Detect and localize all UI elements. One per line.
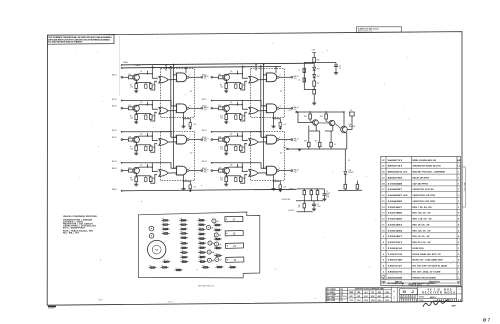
resistor R7 10K — [218, 138, 222, 141]
svg-text:R6: R6 — [180, 222, 182, 224]
board component R19 — [162, 261, 170, 263]
wire output — [279, 139, 291, 141]
resistor R1 10K — [128, 76, 132, 79]
ground — [224, 184, 228, 186]
svg-text:BR-01: BR-01 — [112, 75, 117, 77]
svg-text:K1: K1 — [155, 249, 159, 251]
page border — [47, 32, 462, 306]
OR gate Z3 section 1a — [249, 76, 258, 83]
junction — [273, 118, 274, 119]
ground — [334, 73, 338, 75]
svg-text:1.5K: 1.5K — [283, 124, 286, 126]
svg-text:APVD CHG B 47 E: APVD CHG B 47 E — [358, 30, 373, 33]
wire — [225, 88, 227, 91]
wire to gate input — [241, 112, 247, 121]
resistor R8 10K — [218, 169, 222, 172]
svg-text:Q1: Q1 — [140, 71, 142, 73]
junction — [173, 74, 174, 75]
svg-text:(R2): (R2) — [294, 109, 297, 111]
ground arrow — [189, 190, 192, 192]
wire — [222, 76, 225, 78]
resistor R4 10K — [128, 169, 132, 172]
svg-text:3: 3 — [383, 271, 385, 273]
power terminal bar — [312, 52, 316, 54]
NAND gate Z1 section 1b — [177, 73, 187, 82]
junction — [147, 166, 148, 167]
svg-text:(R3): (R3) — [294, 140, 297, 142]
svg-text:C5: C5 — [181, 255, 183, 257]
svg-text:A/R: A/R — [457, 159, 461, 162]
svg-text:INT. CKT. EXP. OR GATE W. QUA: INT. CKT. EXP. OR GATE W. QUAD — [413, 265, 448, 268]
drawing number box — [396, 287, 398, 302]
capacitor C10 — [189, 123, 192, 127]
wire — [222, 170, 225, 172]
junction — [183, 118, 184, 119]
svg-text:Q8: Q8 — [212, 260, 214, 262]
junction bus/right block — [263, 63, 264, 64]
wire output — [279, 107, 291, 109]
ground — [271, 126, 275, 128]
board IC Z3 — [225, 243, 243, 248]
svg-text:Q11: Q11 — [349, 124, 352, 126]
svg-text:+12V: +12V — [311, 50, 316, 52]
ground arrow — [279, 128, 282, 130]
junction — [147, 135, 148, 136]
svg-text:R24: R24 — [181, 259, 184, 261]
wire — [313, 53, 315, 58]
junction — [136, 113, 137, 114]
wire — [135, 119, 137, 122]
wire to capacitor — [274, 119, 281, 123]
wire — [309, 130, 320, 132]
wire row 2 input line — [212, 100, 267, 106]
wire — [344, 149, 346, 172]
resistor R6 1.5K — [135, 115, 138, 120]
resistor R15 3K — [239, 146, 242, 151]
svg-text:CR1: CR1 — [371, 292, 374, 294]
transistor Q7 — [223, 136, 229, 142]
svg-text:R9: R9 — [298, 205, 300, 207]
wire OR to NAND — [168, 172, 176, 174]
svg-text:4K: 4K — [298, 207, 300, 209]
wire — [330, 147, 332, 149]
svg-text:QTY: QTY — [457, 281, 460, 283]
svg-text:11: 11 — [382, 224, 385, 226]
wire — [132, 107, 135, 109]
OR gate Z1 section 2a — [159, 107, 168, 114]
svg-text:R9: R9 — [220, 84, 222, 86]
wire OR to NAND — [168, 79, 176, 81]
svg-text:2: 2 — [458, 266, 460, 268]
svg-text:10K: 10K — [128, 105, 131, 107]
wire — [123, 107, 129, 109]
svg-text:Q4: Q4 — [140, 164, 142, 166]
table column lines — [385, 157, 387, 280]
resistor R9 3K — [149, 84, 152, 89]
transistor Q9 — [313, 120, 319, 126]
svg-text:RES. 1K, 5%, ¼W: RES. 1K, 5%, ¼W — [413, 234, 430, 238]
output bubble — [187, 76, 189, 78]
ground — [297, 149, 301, 151]
svg-text:10K: 10K — [128, 167, 131, 169]
svg-text:120-4: 120-4 — [357, 299, 361, 302]
board component R21 — [202, 266, 210, 268]
wire NAND top input — [174, 167, 177, 169]
svg-text:1604387-02: 1604387-02 — [388, 194, 410, 197]
wire from row line to OR feed — [241, 163, 243, 167]
wire — [313, 86, 315, 89]
svg-text:13: 13 — [382, 213, 385, 215]
svg-text:C2: C2 — [298, 79, 300, 81]
wire emitter — [225, 173, 228, 177]
board component R25 — [214, 224, 222, 226]
board component R13 — [198, 242, 206, 244]
OR gate Z2 section 3a — [159, 139, 168, 146]
wire — [123, 76, 129, 78]
svg-text:R10: R10 — [220, 115, 223, 117]
capacitor C8 680 — [235, 177, 237, 181]
capacitor C14 — [279, 123, 282, 127]
wire OR to NAND — [168, 110, 176, 112]
resistor R16 1K — [313, 58, 316, 63]
NAND gate Z4 section 3b — [267, 135, 277, 144]
svg-text:R9: R9 — [198, 218, 200, 220]
svg-text:1-9: 1-9 — [340, 297, 342, 299]
output terminal row 1 — [201, 76, 203, 78]
wire output — [189, 107, 201, 109]
IC dashed outline Z3 — [251, 69, 285, 118]
svg-text:.01: .01 — [339, 68, 341, 70]
wire — [273, 119, 275, 126]
svg-text:R19: R19 — [163, 259, 166, 261]
wire — [344, 175, 346, 185]
ground — [134, 91, 138, 93]
wire NAND top input — [264, 167, 267, 169]
wire emitter — [225, 111, 228, 115]
svg-text:1501407: 1501407 — [388, 206, 404, 209]
wire stub — [147, 102, 149, 105]
svg-text:RELAY 24V DPDT: RELAY 24V DPDT — [413, 177, 431, 180]
svg-text:MA-20: MA-20 — [112, 188, 117, 191]
board: transistor can Q10 — [149, 226, 154, 231]
wire bus1 to gate — [165, 65, 167, 71]
svg-text:2: 2 — [246, 113, 247, 115]
svg-text:9: 9 — [189, 137, 190, 139]
wire — [213, 170, 219, 172]
terminal +12V rail — [296, 111, 298, 113]
ground — [271, 188, 275, 190]
junction — [136, 82, 137, 83]
junction — [237, 166, 238, 167]
svg-text:12: 12 — [382, 219, 385, 221]
resistor R14 3K — [239, 115, 242, 120]
capacitor C6 680 — [235, 115, 237, 119]
svg-text:CR1: CR1 — [317, 69, 320, 71]
wire Q9 base — [298, 112, 313, 123]
wire — [150, 176, 152, 177]
resistor R23 — [308, 142, 311, 146]
board component R27 — [214, 238, 222, 240]
svg-text:1.5K: 1.5K — [193, 124, 196, 126]
board component R12 — [198, 233, 206, 235]
wire — [344, 189, 346, 191]
svg-text:Z4: Z4 — [280, 153, 283, 155]
wire cross-connect vertical — [170, 67, 172, 138]
svg-text:12-4: 12-4 — [340, 288, 343, 291]
wire — [303, 189, 305, 191]
wire feedback vertical — [263, 64, 265, 168]
board component R16 — [180, 242, 188, 244]
wire bottom return line — [122, 189, 297, 191]
wire row 4 input line — [122, 163, 177, 169]
svg-text:1604380: 1604380 — [388, 200, 404, 203]
wire row 3 input line — [212, 132, 267, 138]
wire NAND top input — [264, 74, 267, 76]
board component R11 — [198, 228, 206, 230]
svg-text:BR-03: BR-03 — [202, 137, 207, 139]
svg-text:BR-04: BR-04 — [112, 168, 117, 170]
svg-text:1K: 1K — [303, 189, 305, 191]
wire — [240, 114, 242, 115]
svg-text:120-4: 120-4 — [385, 299, 389, 302]
wire — [335, 66, 337, 72]
board component C2 — [180, 237, 188, 239]
svg-text:3: 3 — [458, 189, 460, 191]
capacitor C4 — [330, 142, 333, 146]
wire stub — [147, 133, 149, 136]
board component J1 — [175, 269, 183, 271]
svg-text:1501495: 1501495 — [388, 229, 404, 232]
capacitor C1 680 — [145, 84, 147, 88]
svg-text:1.5K: 1.5K — [130, 117, 133, 119]
wire output — [279, 170, 291, 172]
svg-text:1: 1 — [458, 207, 460, 209]
svg-text:1.5K: 1.5K — [220, 180, 223, 182]
svg-text:1K: 1K — [310, 189, 312, 191]
svg-text:3K: 3K — [153, 178, 155, 180]
junction — [325, 111, 326, 112]
relay coil K1 — [350, 112, 354, 116]
junction — [226, 144, 227, 145]
wire from row line to OR feed — [241, 100, 243, 104]
output terminal row 4 — [201, 170, 203, 172]
svg-text:1.5K: 1.5K — [130, 86, 133, 88]
transistor Q1 — [133, 74, 139, 80]
svg-text:18: 18 — [382, 183, 385, 185]
svg-text:5: 5 — [383, 260, 385, 262]
wire collector — [138, 167, 158, 171]
svg-text:1N91: 1N91 — [357, 292, 360, 294]
wire cross-connect vertical — [260, 66, 262, 137]
wire — [325, 112, 327, 114]
svg-text:R21: R21 — [202, 265, 205, 267]
svg-text:4800410-01: 4800410-01 — [388, 171, 410, 174]
svg-text:3K: 3K — [243, 85, 245, 87]
svg-text:RES. 7.5K, 5%, 2W: RES. 7.5K, 5%, 2W — [413, 207, 432, 209]
scan specks (decorative) — [59, 36, 454, 299]
svg-text:C1: C1 — [162, 231, 164, 233]
board component R24 — [180, 261, 188, 263]
OR gate Z4 section 3a — [249, 139, 258, 146]
svg-text:+4V,R7: +4V,R7 — [288, 188, 293, 190]
wire — [189, 126, 191, 127]
svg-text:R23: R23 — [199, 259, 202, 261]
board component R17 — [180, 247, 188, 249]
svg-text:R26: R26 — [214, 228, 217, 230]
capacitor C5 680 — [235, 84, 237, 88]
wire — [132, 76, 135, 78]
resistor R8 1.5K — [135, 177, 138, 182]
board component C1 — [162, 232, 170, 234]
ground — [224, 153, 228, 155]
svg-text:1.5K: 1.5K — [220, 86, 223, 88]
wire pulldown — [273, 113, 275, 119]
output terminal row 2 — [201, 107, 203, 109]
wire output — [189, 139, 201, 141]
wire pulldown — [273, 175, 275, 181]
svg-text:Z2: Z2 — [233, 233, 236, 235]
board component C7 — [216, 266, 224, 268]
capacitor C3 680 — [145, 146, 147, 150]
svg-text:1: 1 — [458, 172, 460, 174]
transistor Q8 — [223, 167, 229, 173]
wire emitter — [225, 80, 228, 84]
svg-text:10K: 10K — [218, 105, 221, 107]
revision side tab — [462, 167, 465, 207]
svg-text:4800782: 4800782 — [388, 177, 404, 180]
svg-text:NO. AND REVISION STATUS THEREO: NO. AND REVISION STATUS THEREOF — [48, 41, 83, 44]
resistor R9 — [303, 201, 305, 204]
wire to gate input — [151, 81, 157, 90]
svg-text:Q5: Q5 — [230, 71, 232, 73]
junction — [173, 137, 174, 138]
wire — [150, 145, 152, 146]
svg-text:APP. R.HART: APP. R.HART — [327, 294, 336, 297]
junction — [237, 73, 238, 74]
wire NAND top input — [174, 74, 177, 76]
svg-text:BR-04: BR-04 — [202, 168, 207, 170]
svg-text:1501497: 1501497 — [388, 235, 404, 238]
svg-text:RES. 3K, 5%, ¼W: RES. 3K, 5%, ¼W — [413, 222, 430, 226]
wire to capacitor — [184, 181, 191, 185]
svg-text:1: 1 — [458, 201, 460, 203]
svg-text:10K: 10K — [218, 136, 221, 138]
svg-text:120-4: 120-4 — [349, 299, 353, 302]
svg-text:1: 1 — [458, 271, 460, 273]
svg-text:5406731: 5406731 — [388, 159, 404, 162]
svg-text:X7R: X7R — [326, 196, 329, 198]
transistor Q11 — [341, 126, 348, 133]
svg-text:ENG. T.RAY: ENG. T.RAY — [327, 296, 335, 299]
wire to gate input — [151, 112, 157, 121]
board transistor Q7 — [215, 257, 219, 261]
wire from row line to OR feed — [151, 100, 153, 104]
junction — [309, 111, 310, 112]
wire stub — [237, 164, 239, 167]
wire — [303, 195, 305, 201]
junction bus2 — [275, 66, 276, 67]
svg-text:8: 8 — [189, 168, 190, 170]
output terminal row 2 — [291, 107, 293, 109]
svg-text:-2: -2 — [411, 290, 414, 294]
svg-text:PRINTED CIRCUIT BOARD: PRINTED CIRCUIT BOARD — [413, 276, 437, 279]
wire — [313, 78, 315, 82]
svg-text:RES. 12K, 5%, ¼W: RES. 12K, 5%, ¼W — [413, 228, 431, 232]
svg-text:.01UF: .01UF — [326, 193, 330, 195]
wire — [145, 114, 147, 116]
wire — [235, 176, 237, 178]
board component R2 — [161, 224, 169, 226]
svg-text:Q7: Q7 — [219, 259, 221, 261]
svg-text:1502610: 1502610 — [388, 248, 404, 250]
svg-text:BR-24: BR-24 — [202, 161, 207, 163]
svg-text:R12: R12 — [220, 178, 223, 180]
svg-text:R22: R22 — [315, 140, 318, 142]
resistor R20 — [309, 114, 312, 119]
svg-text:MICRO CKT. - DUAL NAND GATE: MICRO CKT. - DUAL NAND GATE — [413, 259, 444, 262]
svg-text:BR-13: BR-13 — [112, 130, 117, 132]
wire — [323, 189, 325, 194]
svg-text:C4: C4 — [199, 255, 201, 257]
hatch strips — [399, 299, 460, 302]
svg-text:R8: R8 — [130, 178, 132, 180]
svg-text:6: 6 — [383, 254, 385, 256]
wire — [279, 189, 281, 190]
svg-text:R8: R8 — [180, 231, 182, 233]
board component R5 — [179, 219, 187, 221]
junction — [263, 137, 264, 138]
wire Q11 emitter to K1 — [345, 132, 347, 149]
wire to C3 — [314, 62, 336, 64]
svg-text:MA-15: MA-15 — [294, 75, 299, 78]
OR gate Z3 section 2a — [249, 107, 258, 114]
corner mark LD — [48, 306, 56, 308]
table PARTS LIST row — [402, 283, 404, 286]
svg-text:4891-1: 4891-1 — [168, 302, 174, 304]
svg-text:10K: 10K — [218, 74, 221, 76]
input terminal row 4 — [121, 170, 123, 172]
svg-text:TRANSISTOR 2N3643 SILICON: TRANSISTOR 2N3643 SILICON — [413, 165, 442, 168]
board component R10 — [198, 224, 206, 226]
wire — [136, 82, 151, 84]
svg-text:R14: R14 — [198, 245, 201, 247]
svg-text:2: 2 — [156, 82, 157, 84]
svg-text:R5: R5 — [180, 218, 182, 220]
board component R9 — [197, 219, 205, 221]
transistor Q10 — [329, 120, 335, 126]
svg-text:2: 2 — [156, 144, 157, 146]
wire — [317, 189, 319, 191]
svg-text:RES. 1.5K, 5%, ¼W: RES. 1.5K, 5%, ¼W — [413, 217, 432, 221]
svg-text:120-4: 120-4 — [364, 299, 368, 302]
wire — [240, 176, 242, 177]
resistor R11 1.5K — [225, 146, 228, 151]
svg-text:15: 15 — [382, 201, 385, 203]
transistor Q2 — [133, 105, 139, 111]
svg-text:R1: R1 — [162, 218, 164, 220]
svg-text:C7: C7 — [326, 191, 328, 193]
svg-text:MA-18: MA-18 — [294, 168, 299, 171]
svg-text:R11: R11 — [198, 227, 201, 229]
svg-text:(R1): (R1) — [294, 78, 297, 80]
svg-text:Q6: Q6 — [212, 252, 214, 254]
svg-text:Z2: Z2 — [190, 153, 193, 155]
resistor R10 1.5K — [225, 115, 228, 120]
wire collector — [138, 74, 158, 78]
ground — [134, 153, 138, 155]
wire — [222, 139, 225, 141]
output bubble — [277, 139, 279, 141]
